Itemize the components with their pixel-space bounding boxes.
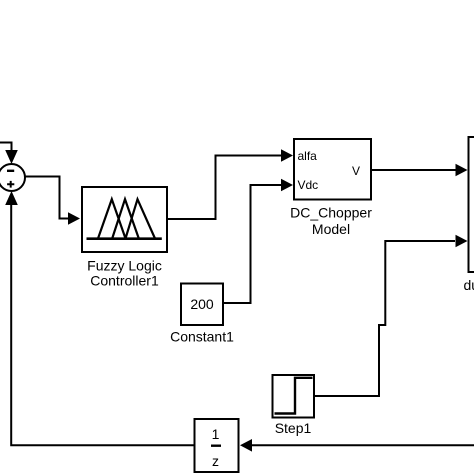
label: Fuzzy Logic Controller1: [87, 258, 162, 289]
svg-text:Fuzzy Logic: Fuzzy Logic: [87, 258, 162, 274]
arrowhead: into scope block bottom input: [456, 235, 468, 248]
arrowhead: into scope block top input: [456, 164, 468, 177]
svg-text:1: 1: [212, 426, 220, 442]
svg-text:duty cycle: duty cycle: [464, 277, 474, 293]
summer (sum junction): [0, 164, 25, 191]
svg-text:200: 200: [190, 296, 214, 312]
block: Unit Delay 1/z: [195, 419, 239, 472]
wire: feedback from right edge to Unit Delay: [251, 444, 474, 446]
arrowhead: into Vdc port: [281, 179, 293, 192]
arrowhead: into Unit Delay (pointing left): [240, 439, 252, 452]
arrowhead: summer bottom input (pointing up): [5, 191, 18, 205]
arrowhead: into Fuzzy Logic Controller1: [68, 212, 80, 225]
svg-text:Controller1: Controller1: [90, 273, 159, 289]
arrowhead: into alfa port: [281, 149, 293, 162]
svg-text:Constant1: Constant1: [170, 329, 234, 345]
label: DC_Chopper Model: [290, 205, 372, 238]
svg-text:DC_Chopper: DC_Chopper: [290, 205, 372, 221]
wire: Fuzzy Logic Controller1 output to alfa input: [168, 156, 282, 220]
block: scope (partially visible at right edge): [469, 137, 474, 272]
svg-text:z: z: [212, 453, 219, 469]
wire: V output to scope block: [371, 169, 456, 171]
arrowhead: top input into summer: [5, 150, 18, 164]
svg-text:Model: Model: [312, 221, 350, 237]
wire: summer output to Fuzzy Logic Controller1: [26, 177, 70, 219]
svg-text:Vdc: Vdc: [298, 178, 319, 192]
block: Constant1: [181, 284, 223, 326]
block: Step1: [273, 375, 315, 418]
svg-text:alfa: alfa: [298, 149, 318, 163]
wire: Constant1 output to Vdc input: [224, 185, 283, 303]
wire: Step1 output to scope block bottom input: [314, 241, 455, 396]
block: DC_Chopper Model: [294, 139, 371, 200]
wire: Unit Delay output to summer bottom input: [11, 205, 194, 445]
wire: top input into summer: [0, 143, 12, 152]
block: Fuzzy Logic Controller1: [82, 187, 167, 252]
svg-text:Step1: Step1: [275, 420, 312, 436]
svg-text:V: V: [352, 164, 360, 178]
